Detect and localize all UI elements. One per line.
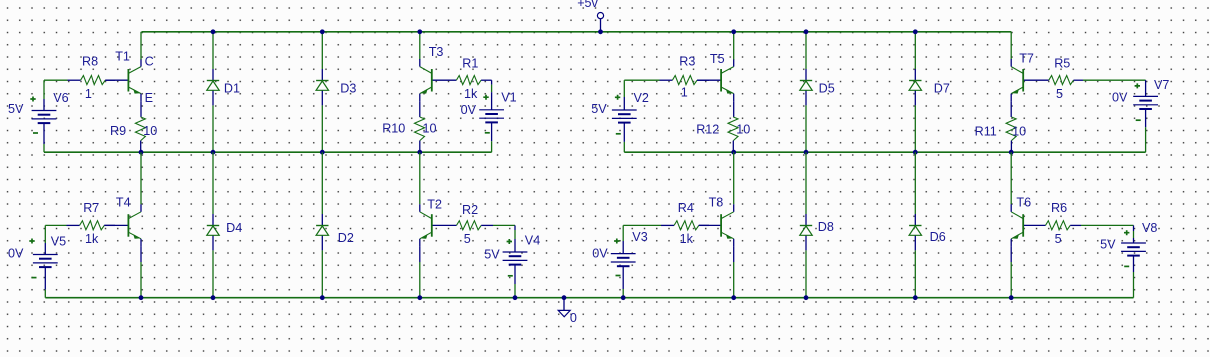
svg-text:R10: R10 (382, 122, 405, 136)
wire top rail to D3 (321, 32, 323, 69)
junction D1 mid rail (211, 150, 216, 155)
wire mid rail to D4 (212, 152, 214, 214)
plus sign V7 (1135, 83, 1140, 88)
transistor T6 (1011, 204, 1045, 247)
svg-text:D3: D3 (340, 82, 356, 96)
svg-text:10: 10 (143, 124, 157, 138)
minus sign V8 (1124, 265, 1129, 267)
resistor R3 (660, 76, 710, 85)
wire mid rail to T6 collector (1010, 152, 1012, 204)
svg-text:V3: V3 (632, 230, 647, 244)
junction +5v terminal top rail (598, 29, 603, 34)
resistor R12 (728, 117, 738, 152)
minus sign V3 (616, 275, 621, 277)
resistor R6 (1046, 221, 1082, 230)
svg-text:5: 5 (1055, 232, 1062, 246)
wire V1 to mid rail (491, 122, 493, 152)
svg-text:R8: R8 (82, 55, 98, 69)
transistor T4 (104, 204, 141, 247)
wire mid rail to D8 (805, 152, 807, 214)
wire top rail to D7 (914, 32, 916, 69)
junction T3 top rail (417, 29, 422, 34)
wire V7 to mid rail (1145, 109, 1147, 152)
junction D2 bottom rail (320, 295, 325, 300)
wire T7 emitter to R11 (1010, 102, 1012, 117)
minus sign V1 (485, 132, 490, 134)
svg-text:D4: D4 (226, 221, 242, 235)
voltage source V1 (479, 110, 504, 123)
plus sign V1 (483, 95, 488, 100)
svg-text:T6: T6 (1016, 196, 1031, 210)
resistor R8 (68, 76, 116, 85)
resistor R1 (456, 76, 491, 85)
minus sign V2 (616, 133, 621, 135)
svg-text:T1: T1 (115, 50, 130, 64)
wire T3 emitter to R10 (419, 102, 421, 117)
voltage source V3 (611, 254, 636, 267)
svg-text:V6: V6 (53, 91, 68, 105)
wire T5 emitter to R12 (733, 102, 735, 117)
wire D3 to mid rail (321, 105, 323, 152)
transistor T5 (697, 59, 734, 102)
wire T6 emitter to bottom rail (1010, 247, 1012, 298)
junction D7 mid rail (913, 150, 918, 155)
wire mid rail to T2 collector (419, 152, 421, 204)
resistor R4 (661, 221, 709, 230)
transistor T1 (105, 59, 141, 102)
svg-text:T4: T4 (116, 196, 131, 210)
transistor T8 (699, 204, 734, 247)
svg-text:+5v: +5v (577, 0, 598, 10)
junction D6 bottom rail (913, 295, 918, 300)
junction T5 column mid rail (731, 150, 736, 155)
plus sign V2 (615, 95, 620, 100)
svg-text:T8: T8 (709, 196, 724, 210)
svg-text:R6: R6 (1051, 201, 1067, 215)
wire V5 to R7 (45, 224, 66, 226)
svg-text:T5: T5 (710, 52, 725, 66)
svg-text:T3: T3 (429, 45, 444, 59)
svg-text:1: 1 (681, 86, 688, 100)
junction D7 top rail (913, 29, 918, 34)
diode D2 (316, 214, 328, 250)
resistor R10 (415, 117, 425, 152)
voltage source V8 (1121, 243, 1146, 256)
wire D8 to bottom rail (805, 250, 807, 297)
plus sign V6 (30, 97, 35, 102)
junction D3 mid rail (320, 150, 325, 155)
diode D1 (207, 69, 219, 105)
svg-text:V8: V8 (1142, 221, 1157, 235)
svg-text:5V: 5V (1100, 237, 1116, 251)
diode D6 (909, 214, 921, 250)
wire R1 to V1 (491, 80, 493, 110)
wire V6 to R8 (44, 79, 68, 81)
plus sign V4 (507, 239, 512, 244)
svg-text:T2: T2 (427, 197, 442, 211)
diode D4 (207, 214, 219, 250)
minus sign V7 (1136, 119, 1141, 121)
wire D2 to bottom rail (321, 250, 323, 297)
diode D8 (800, 214, 812, 250)
junction T6 bottom rail (1009, 295, 1014, 300)
wire T8 emitter to bottom rail (733, 247, 735, 298)
transistor T3 (420, 59, 457, 102)
svg-text:1k: 1k (85, 232, 99, 246)
resistor R2 (457, 221, 494, 230)
wire mid rail to T8 collector (733, 152, 735, 204)
wire R5 to V7 (1083, 80, 1146, 96)
wire T5 collector to top rail (733, 32, 735, 60)
svg-text:R1: R1 (462, 57, 478, 71)
svg-text:R9: R9 (110, 124, 126, 138)
svg-text:1: 1 (85, 87, 92, 101)
wire V3 to R4 (623, 224, 661, 226)
svg-text:D2: D2 (338, 231, 354, 245)
svg-text:R4: R4 (678, 201, 694, 215)
junction T5 top rail (731, 29, 736, 34)
resistor R11 (1006, 117, 1016, 152)
svg-text:V4: V4 (525, 233, 540, 247)
svg-text:5V: 5V (8, 102, 24, 116)
wire D5 to mid rail (805, 105, 807, 152)
ground (558, 298, 570, 317)
junction D1 top rail (211, 29, 216, 34)
resistor R5 (1049, 76, 1083, 85)
wire mid-left rail (44, 151, 492, 153)
transistor T2 (420, 204, 457, 247)
junction T1 column mid rail (139, 150, 144, 155)
svg-text:0V: 0V (1112, 90, 1128, 104)
wire V4 to bottom rail (514, 265, 516, 298)
voltage source V5 wiring (44, 225, 46, 297)
wire V2 to R3 (624, 79, 659, 81)
svg-text:10: 10 (423, 122, 437, 136)
voltage source V5 (33, 255, 58, 268)
minus sign V6 (33, 132, 38, 134)
wire D1 to mid rail (212, 105, 214, 152)
plus sign V5 (29, 239, 34, 244)
wire R2 to V4 (493, 225, 515, 252)
diode D5 (800, 69, 812, 105)
wire T1 emitter to R9 (140, 102, 142, 117)
wire top rail to D1 (212, 32, 214, 69)
svg-text:V2: V2 (634, 91, 649, 105)
svg-text:0V: 0V (8, 246, 24, 260)
wire T3 collector to top rail (419, 32, 421, 60)
svg-text:D5: D5 (819, 82, 835, 96)
svg-text:R2: R2 (462, 203, 478, 217)
svg-text:R3: R3 (679, 55, 695, 69)
svg-text:10: 10 (736, 123, 750, 137)
node +5v terminal (597, 13, 603, 32)
transistor T7 (1011, 59, 1049, 102)
wire R6 to V8 (1081, 225, 1134, 243)
junction T2 bottom rail (417, 295, 422, 300)
junction V3 bottom rail (621, 295, 626, 300)
wire T4 emitter to bottom rail (140, 247, 142, 298)
junction D8 bottom rail (804, 295, 809, 300)
junction D3 top rail (320, 29, 325, 34)
svg-text:R11: R11 (975, 124, 997, 138)
wire mid rail to D2 (321, 152, 323, 214)
wire D7 to mid rail (914, 105, 916, 152)
resistor R7 (67, 221, 116, 230)
svg-text:10: 10 (1012, 124, 1026, 138)
resistor R9 (135, 117, 145, 152)
wire T2 emitter to bottom rail (419, 247, 421, 298)
junction T8 bottom rail (731, 295, 736, 300)
wire D4 to bottom rail (212, 250, 214, 297)
wire top rail to D5 (805, 32, 807, 69)
junction T3 column mid rail (417, 150, 422, 155)
voltage source V6 (32, 111, 57, 124)
voltage source V6 wiring (43, 80, 45, 152)
junction D5 mid rail (804, 150, 809, 155)
svg-text:D1: D1 (224, 82, 240, 96)
svg-text:V1: V1 (501, 90, 516, 104)
wire mid rail to T4 collector (140, 152, 142, 204)
svg-text:R5: R5 (1054, 57, 1070, 71)
svg-text:C: C (145, 55, 154, 69)
wire T1 collector to top rail (140, 32, 142, 60)
svg-text:T7: T7 (1019, 52, 1034, 66)
svg-text:E: E (145, 91, 153, 105)
wire D6 to bottom rail (914, 250, 916, 297)
svg-text:R7: R7 (83, 201, 99, 215)
voltage source V2 wiring (623, 80, 625, 152)
svg-text:5V: 5V (484, 247, 500, 261)
svg-text:V7: V7 (1154, 78, 1169, 92)
diode D3 (316, 69, 328, 105)
voltage source V3 wiring (622, 225, 624, 297)
svg-text:D8: D8 (818, 220, 834, 234)
svg-text:0V: 0V (592, 246, 608, 260)
svg-text:0V: 0V (461, 103, 477, 117)
svg-text:V5: V5 (51, 235, 66, 249)
svg-text:R12: R12 (696, 123, 719, 137)
wire +5V top rail (142, 31, 1012, 33)
svg-text:5: 5 (464, 232, 471, 246)
plus sign V8 (1124, 230, 1129, 235)
svg-text:5: 5 (1056, 87, 1063, 101)
svg-text:1k: 1k (464, 87, 478, 101)
wire ground bottom rail (45, 297, 1133, 299)
minus sign V4 (508, 275, 513, 277)
junction ground bottom rail (562, 295, 567, 300)
voltage source V4 (503, 252, 528, 265)
plus sign V3 (614, 239, 619, 244)
svg-text:1k: 1k (680, 232, 694, 246)
svg-text:D6: D6 (930, 230, 946, 244)
junction D4 bottom rail (211, 295, 216, 300)
minus sign V5 (32, 277, 37, 279)
wire mid-right rail (624, 151, 1145, 153)
svg-text:0: 0 (570, 311, 577, 325)
wire mid rail to D6 (914, 152, 916, 214)
diode D7 (909, 69, 921, 105)
wire V8 to bottom rail (1133, 256, 1135, 298)
junction D5 top rail (804, 29, 809, 34)
voltage source V7 (1133, 96, 1158, 109)
junction V4 bottom rail (513, 295, 518, 300)
svg-text:5V: 5V (591, 102, 607, 116)
wire T7 collector to top rail (1010, 32, 1012, 60)
svg-text:D7: D7 (934, 82, 950, 96)
voltage source V2 (612, 110, 637, 123)
junction T4 bottom rail (139, 295, 144, 300)
junction T7 column mid rail (1009, 150, 1014, 155)
